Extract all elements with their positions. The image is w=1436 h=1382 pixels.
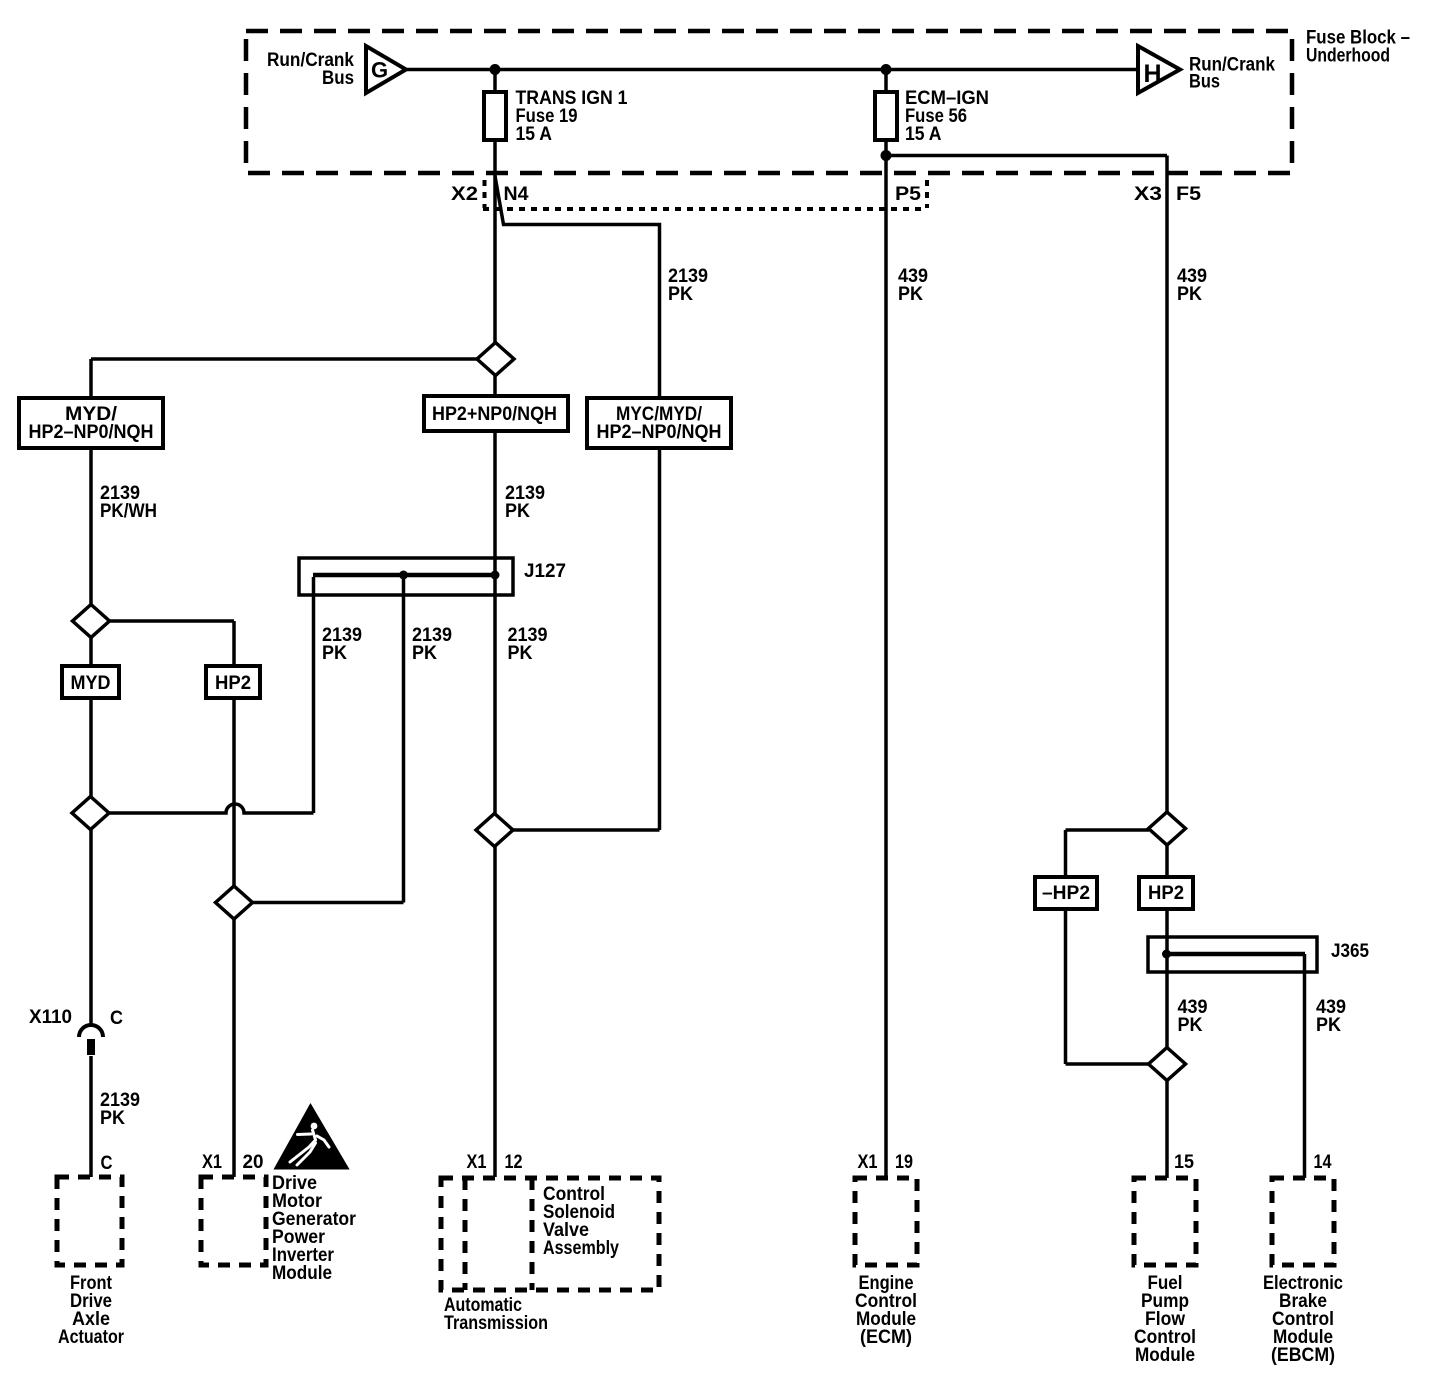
- svg-text:15: 15: [1174, 1152, 1194, 1173]
- svg-text:(EBCM): (EBCM): [1271, 1345, 1335, 1366]
- svg-text:Underhood: Underhood: [1306, 46, 1390, 67]
- svg-text:PK: PK: [668, 284, 693, 305]
- svg-text:19: 19: [895, 1152, 913, 1173]
- svg-text:PK: PK: [1178, 1015, 1203, 1036]
- svg-text:PK: PK: [508, 643, 533, 664]
- svg-text:PK: PK: [100, 1108, 125, 1129]
- svg-text:HP2: HP2: [1148, 883, 1184, 904]
- svg-text:PK: PK: [1177, 284, 1202, 305]
- svg-text:J365: J365: [1331, 941, 1369, 962]
- svg-text:Module: Module: [1135, 1345, 1195, 1366]
- svg-text:H: H: [1143, 60, 1161, 88]
- svg-text:MYD: MYD: [71, 673, 111, 694]
- svg-text:15 A: 15 A: [905, 124, 942, 145]
- svg-text:20: 20: [243, 1152, 264, 1173]
- svg-text:G: G: [371, 58, 388, 83]
- svg-text:–HP2: –HP2: [1042, 883, 1090, 904]
- svg-text:PK: PK: [1316, 1015, 1341, 1036]
- svg-text:HP2–NP0/NQH: HP2–NP0/NQH: [29, 422, 154, 443]
- svg-text:X110: X110: [29, 1007, 72, 1028]
- svg-text:C: C: [110, 1008, 123, 1029]
- svg-text:(ECM): (ECM): [860, 1327, 912, 1348]
- svg-text:J127: J127: [524, 561, 566, 582]
- svg-text:N4: N4: [504, 184, 529, 205]
- svg-text:HP2+NP0/NQH: HP2+NP0/NQH: [432, 404, 557, 425]
- svg-text:C: C: [101, 1153, 113, 1174]
- svg-text:Module: Module: [272, 1263, 332, 1284]
- svg-text:15 A: 15 A: [516, 124, 553, 145]
- svg-text:12: 12: [505, 1152, 523, 1173]
- svg-text:Bus: Bus: [322, 68, 354, 89]
- svg-text:P5: P5: [895, 184, 921, 205]
- svg-text:X3: X3: [1134, 184, 1162, 205]
- svg-text:PK: PK: [898, 284, 923, 305]
- svg-text:PK: PK: [505, 501, 530, 522]
- svg-text:X2: X2: [451, 184, 478, 205]
- svg-text:Assembly: Assembly: [543, 1238, 619, 1259]
- svg-text:F5: F5: [1176, 184, 1201, 205]
- svg-text:X1: X1: [858, 1152, 878, 1173]
- svg-text:14: 14: [1314, 1152, 1332, 1173]
- svg-text:HP2–NP0/NQH: HP2–NP0/NQH: [597, 422, 722, 443]
- svg-text:Transmission: Transmission: [444, 1313, 548, 1334]
- svg-text:X1: X1: [202, 1152, 222, 1173]
- svg-text:Actuator: Actuator: [58, 1327, 125, 1348]
- svg-text:PK/WH: PK/WH: [100, 501, 157, 522]
- svg-text:Bus: Bus: [1189, 72, 1220, 93]
- svg-text:PK: PK: [322, 643, 347, 664]
- svg-text:HP2: HP2: [215, 673, 251, 694]
- svg-text:PK: PK: [412, 643, 437, 664]
- svg-text:X1: X1: [467, 1152, 487, 1173]
